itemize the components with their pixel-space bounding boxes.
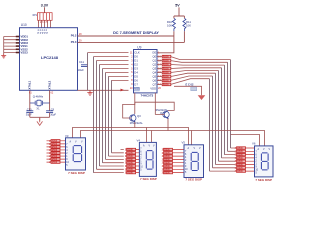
svg-text:RP1: RP1: [33, 15, 38, 17]
wires caps to ground: [30, 113, 50, 121]
svg-text:R500: R500: [127, 159, 133, 161]
svg-text:R500: R500: [237, 168, 243, 170]
wires RP1 to U10: [39, 20, 51, 27]
wire XTAL2: [49, 90, 51, 103]
latch pin numbers left: [130, 50, 133, 90]
transistor Q3: [130, 114, 136, 122]
svg-text:R500: R500: [163, 71, 169, 74]
svg-text:P P P P P: P P P P P: [38, 32, 49, 35]
latch pins left labels: [134, 51, 140, 91]
wire XTAL1: [29, 90, 31, 103]
svg-text:Q3: Q3: [137, 114, 141, 118]
svg-text:R500: R500: [163, 60, 169, 63]
svg-text:V4: V4: [137, 138, 141, 142]
svg-text:C11: C11: [79, 60, 84, 64]
svg-text:7 SEG DISP: 7 SEG DISP: [255, 178, 272, 182]
svg-text:R500: R500: [237, 164, 243, 166]
latch pin numbers right: [158, 50, 161, 90]
svg-text:Q-4MHz: Q-4MHz: [33, 95, 44, 99]
resistor R10: [172, 18, 175, 31]
svg-text:R500: R500: [163, 63, 169, 66]
svg-text:R500: R500: [163, 67, 169, 70]
svg-text:R500: R500: [163, 83, 169, 86]
capacitor C9: [49, 103, 51, 111]
ground arrow right: [198, 95, 206, 100]
ground left: [1, 54, 6, 58]
resistor boxes latch right: [162, 55, 171, 86]
svg-text:30pF: 30pF: [26, 113, 32, 117]
svg-text:10K: 10K: [186, 24, 191, 28]
wire VSS run: [78, 89, 129, 91]
svg-text:XTAL2: XTAL2: [48, 80, 52, 89]
wire Q3 base: [123, 93, 135, 118]
net ECO2 wire: [174, 86, 202, 95]
svg-text:10K: 10K: [167, 24, 172, 28]
svg-text:R500: R500: [237, 158, 243, 160]
svg-text:7 SEG DISP: 7 SEG DISP: [68, 171, 85, 175]
resistor pack RP1: [38, 13, 53, 21]
svg-text:MN2222AL: MN2222AL: [130, 121, 144, 125]
svg-text:7 SEG DISP: 7 SEG DISP: [185, 178, 202, 182]
svg-text:1 2 3 4 5: 1 2 3 4 5: [38, 21, 48, 24]
svg-text:7 SEG DISP: 7 SEG DISP: [140, 177, 157, 181]
svg-text:VDD: VDD: [150, 86, 156, 90]
wires R bottoms: [174, 31, 185, 42]
svg-text:R500: R500: [127, 156, 133, 158]
svg-text:10uF: 10uF: [78, 68, 85, 72]
svg-text:VSS: VSS: [134, 86, 140, 90]
wire Q3 emitter: [134, 122, 136, 127]
pin stubs left dark: [16, 36, 19, 54]
svg-text:R500: R500: [164, 149, 170, 151]
svg-text:74HC573: 74HC573: [141, 93, 154, 97]
svg-text:R500: R500: [127, 149, 133, 151]
svg-text:R500: R500: [52, 144, 58, 146]
wire Q4 emitter: [167, 119, 169, 131]
wire OE pullup: [157, 36, 174, 53]
svg-text:R500: R500: [163, 56, 169, 59]
ground mid: [87, 90, 92, 95]
svg-text:R500: R500: [127, 163, 133, 165]
svg-text:P0.2: P0.2: [71, 34, 77, 38]
pin labels left VDD: [21, 35, 29, 55]
resistor pack P1: [47, 140, 66, 165]
wire Q4 base: [155, 93, 164, 115]
bus line B: [81, 131, 265, 146]
wires latch to resistors: [157, 57, 162, 85]
net arrow right: [121, 89, 125, 92]
capacitor C10: [29, 103, 31, 111]
wire D4 second feed: [231, 135, 260, 146]
svg-text:R500: R500: [237, 155, 243, 157]
svg-text:VSS3: VSS3: [21, 51, 29, 55]
svg-text:R500: R500: [237, 161, 243, 163]
svg-text:R500: R500: [127, 173, 133, 175]
wire P0.2 bus: [78, 35, 174, 37]
svg-text:XTAL1: XTAL1: [28, 80, 32, 89]
resistor R11: [183, 18, 186, 31]
svg-text:X1: X1: [36, 106, 40, 110]
svg-text:DC 7-SEGMENT DISPLAY: DC 7-SEGMENT DISPLAY: [113, 31, 159, 35]
svg-text:V6: V6: [252, 142, 256, 146]
svg-text:R500: R500: [127, 169, 133, 171]
svg-text:R500: R500: [52, 156, 58, 158]
svg-text:R500: R500: [52, 153, 58, 155]
svg-text:R500: R500: [237, 171, 243, 173]
svg-text:R500: R500: [164, 153, 170, 155]
net label box: [134, 87, 139, 91]
resistor pack P4: [235, 147, 255, 173]
left bundle verticals: [88, 53, 112, 173]
right wire bundle to staircase P4: [171, 57, 236, 172]
svg-text:R500: R500: [52, 150, 58, 152]
svg-text:R500: R500: [52, 147, 58, 149]
svg-text:R500: R500: [127, 153, 133, 155]
svg-text:R500: R500: [164, 163, 170, 165]
svg-text:R500: R500: [164, 159, 170, 161]
svg-text:R500: R500: [52, 159, 58, 161]
svg-text:R500: R500: [237, 151, 243, 153]
resistor pack P2: [125, 148, 140, 174]
svg-text:R500: R500: [52, 162, 58, 164]
bus line A: [73, 128, 189, 145]
svg-text:R500: R500: [164, 166, 170, 168]
svg-text:R500: R500: [163, 75, 169, 78]
wire Q3 collector: [135, 102, 174, 114]
wire P0.3 bus: [78, 41, 185, 43]
svg-text:R500: R500: [52, 141, 58, 143]
left wire bundle to staircase P2: [88, 53, 129, 173]
svg-text:R500: R500: [163, 79, 169, 82]
svg-text:C10: C10: [27, 107, 32, 111]
wire 3.3V to RP1: [44, 7, 46, 13]
svg-text:R500: R500: [164, 173, 170, 175]
svg-text:R500: R500: [164, 169, 170, 171]
latch pins right labels: [150, 51, 156, 91]
svg-text:R500: R500: [164, 156, 170, 158]
svg-text:C9: C9: [51, 107, 55, 111]
seven-seg 8 glyph D1: [73, 146, 81, 162]
right bundle verticals: [210, 60, 231, 172]
svg-text:3.3V: 3.3V: [41, 3, 49, 7]
svg-text:P0.3: P0.3: [71, 40, 77, 44]
transistor Q4: [163, 110, 169, 118]
svg-text:R500: R500: [237, 148, 243, 150]
svg-text:U10: U10: [21, 23, 27, 27]
svg-text:5V: 5V: [175, 4, 180, 8]
ground crystal: [37, 117, 43, 125]
svg-text:V5: V5: [182, 141, 186, 145]
svg-text:R500: R500: [127, 166, 133, 168]
svg-text:30pF: 30pF: [50, 113, 56, 117]
wire 5V: [174, 7, 185, 18]
svg-text:LPC2148: LPC2148: [41, 55, 59, 60]
svg-text:E C 02: E C 02: [186, 83, 194, 87]
connector comb left: [4, 37, 17, 55]
resistor pack P3: [162, 148, 184, 174]
